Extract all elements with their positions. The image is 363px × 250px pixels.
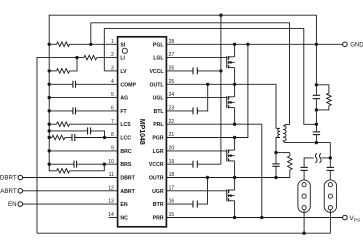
svg-text:BRC: BRC	[120, 149, 131, 155]
svg-text:7: 7	[111, 119, 114, 125]
svg-text:LI: LI	[120, 56, 125, 62]
wire PGL/GND row	[166, 43, 342, 45]
svg-text:UGR: UGR	[152, 189, 164, 195]
wire FT row right	[76, 110, 118, 112]
wire LCC bus lead	[49, 137, 52, 139]
node BRS junction	[103, 163, 106, 166]
transistor Q1 (low side L)	[227, 44, 235, 84]
wire balance row right	[322, 157, 331, 159]
svg-text:AG: AG	[120, 96, 128, 102]
terminal DBRT	[18, 175, 23, 180]
svg-text:PGL: PGL	[153, 42, 164, 48]
wire LGR row	[166, 150, 226, 152]
svg-text:VCCL: VCCL	[149, 69, 164, 75]
svg-text:12: 12	[108, 185, 114, 191]
wire LI row to pin	[97, 57, 118, 59]
node lamp1 return junction	[302, 232, 305, 235]
wire SI row bus lead	[49, 43, 56, 45]
resistor R4 (LCS)	[57, 122, 70, 127]
capacitor C1 (COMP)	[72, 81, 74, 88]
wire BTR row left	[166, 203, 193, 205]
svg-text:LV: LV	[120, 69, 127, 75]
wire gnd mid vertical	[220, 15, 222, 164]
wire BTL row right	[197, 84, 207, 111]
svg-text:14: 14	[108, 212, 114, 218]
wire C9 top lead	[275, 153, 277, 164]
svg-text:PGR: PGR	[152, 136, 163, 142]
node OUTR primary junction	[274, 176, 277, 179]
resistor R8 (sense)	[327, 93, 332, 105]
wire COMP row left	[49, 83, 73, 85]
wire R3 leads	[49, 70, 56, 72]
resistor R7 (bleed)	[288, 156, 293, 170]
transistor Q3 (low side R)	[227, 138, 235, 178]
capacitor C10 (sense)	[313, 94, 320, 96]
wire BRS shunt left hook	[49, 164, 56, 171]
wire VCCR row left	[166, 163, 193, 165]
wire UGR row	[166, 190, 226, 192]
svg-text:ABRT: ABRT	[120, 189, 135, 195]
capacitor C12 (ballast lamp2)	[327, 166, 334, 168]
wire R3 up link	[70, 58, 78, 71]
node PRL fet junction	[233, 123, 236, 126]
wire NC stub	[109, 217, 118, 219]
wire BRC row	[49, 150, 117, 152]
svg-text:1: 1	[111, 39, 114, 45]
svg-text:NC: NC	[120, 216, 128, 222]
capacitor C4 (BRS)	[73, 161, 75, 168]
svg-text:4: 4	[111, 79, 114, 85]
wire C10 leads	[315, 85, 317, 96]
svg-text:9: 9	[111, 146, 114, 152]
capacitor C5 (VCCL)	[192, 67, 194, 74]
svg-text:LCC: LCC	[120, 136, 131, 142]
terminal EN	[18, 202, 23, 207]
node LCC bus junction	[48, 136, 51, 139]
transistor Q4 (high side R)	[227, 178, 235, 218]
capacitor C13 (balance)	[315, 153, 317, 163]
wire SI feedback rail	[91, 23, 290, 125]
wire LCS row	[70, 123, 118, 125]
node LCC par bus junction	[48, 129, 51, 132]
resistor R2 (LI series)	[84, 55, 97, 60]
svg-text:LGL: LGL	[153, 56, 164, 62]
wire gnd rail mid	[315, 110, 317, 124]
svg-text:13: 13	[108, 199, 114, 205]
resistor R6 (BRS to GND)	[57, 169, 70, 174]
node balance junction	[329, 156, 332, 159]
transformer T1 primary	[276, 128, 280, 152]
node PRR PRL junction	[260, 216, 263, 219]
wire balance row left	[304, 158, 314, 168]
wire BRS row right	[77, 163, 118, 165]
node BRC bus junction	[48, 149, 51, 152]
resistor R5 (LCC)	[52, 135, 65, 140]
node LI junction	[75, 56, 78, 59]
wire VCCL row left	[166, 70, 193, 72]
wire ABRT row	[23, 190, 118, 192]
node PGL gnd-rail junction	[315, 43, 318, 46]
svg-text:PRR: PRR	[153, 216, 164, 222]
transistor Q2 (high side L)	[227, 84, 235, 124]
node secondary bottom junction	[315, 141, 318, 144]
node OUTL boot junction	[206, 83, 209, 86]
capacitor C8 (BTR)	[192, 201, 194, 208]
wire LCC par branch left	[49, 130, 87, 132]
capacitor C15 (LCC parallel)	[87, 127, 89, 134]
wire LCC row right	[75, 137, 118, 139]
pin 1 indicator circle	[122, 48, 127, 53]
wire SI row	[70, 43, 118, 45]
capacitor C14 (ballast lamp1)	[300, 166, 307, 168]
terminal VPS	[343, 215, 348, 220]
svg-text:2: 2	[111, 52, 114, 58]
svg-text:ABRT: ABRT	[0, 188, 17, 195]
wire ground top rail	[49, 15, 316, 44]
wire PRL row	[166, 124, 261, 217]
svg-text:8: 8	[111, 132, 114, 138]
wire FT row left	[49, 110, 73, 112]
svg-text:EN: EN	[8, 201, 17, 208]
node sense bottom junction	[315, 108, 318, 111]
node SI rail junction	[89, 43, 92, 46]
wire lamp2 cap lead	[329, 158, 331, 168]
wire VCCR row right	[197, 163, 221, 165]
wire LGL row	[166, 57, 226, 59]
svg-text:FT: FT	[120, 109, 127, 115]
svg-text:BRS: BRS	[120, 162, 131, 168]
wire EN row	[23, 203, 118, 205]
svg-text:OUTL: OUTL	[149, 82, 164, 88]
capacitor C3 (LCC)	[71, 134, 73, 141]
node sense top junction	[315, 83, 318, 86]
wire BRS row left	[49, 163, 74, 165]
svg-text:5: 5	[111, 92, 114, 98]
svg-text:3: 3	[111, 66, 114, 72]
wire COMP row right	[76, 83, 118, 85]
svg-text:GND: GND	[350, 43, 363, 49]
wire R8 branch	[316, 85, 329, 93]
svg-text:SI: SI	[120, 42, 125, 48]
wire BTL row left	[166, 110, 193, 112]
node LCS bus junction	[48, 123, 51, 126]
node PGL M1 junction	[233, 43, 236, 46]
wire LV feedback rail	[104, 29, 316, 125]
node FT bus junction	[48, 109, 51, 112]
svg-text:LGR: LGR	[153, 149, 164, 155]
svg-text:OUTR: OUTR	[149, 176, 164, 182]
svg-text:BTR: BTR	[153, 202, 164, 208]
svg-text:DBRT: DBRT	[120, 176, 135, 182]
wire lamp1 bottom lead	[303, 210, 305, 233]
svg-text:VCCR: VCCR	[149, 162, 164, 168]
node COMP bus junction	[48, 83, 51, 86]
wire LCC par branch right	[91, 131, 105, 138]
wire LI row	[37, 58, 84, 234]
capacitor C11 (divider)	[313, 131, 320, 133]
svg-text:MP1048: MP1048	[138, 119, 145, 145]
wire VCCL row right	[197, 70, 221, 72]
wire ground bus left	[48, 15, 50, 165]
node PGL PGR junction	[246, 43, 249, 46]
node primary RC top junction	[274, 151, 277, 154]
wire R7 leads	[289, 153, 291, 156]
wire LV pin stub	[104, 70, 117, 72]
wire lamp2 top lead	[329, 170, 331, 182]
node PGR fet junction	[233, 136, 236, 139]
node OUTL fet junction	[233, 83, 236, 86]
transformer T1 secondary	[283, 124, 286, 142]
wire lamp1 top lead	[303, 170, 305, 182]
wire secondary bottom row	[285, 143, 331, 158]
node LCC par junction	[103, 136, 106, 139]
svg-text:6: 6	[111, 106, 114, 112]
wire PGR row	[166, 44, 248, 137]
node gnd mid top junction	[219, 14, 222, 17]
wire R7 branch top	[276, 152, 290, 154]
node PRR fet junction	[233, 216, 236, 219]
svg-text:LCS: LCS	[120, 122, 131, 128]
wire LCC mid lead	[65, 137, 72, 139]
lamp LAMP1	[298, 180, 310, 213]
node SI bus junction	[48, 43, 51, 46]
wire C9 bottom lead	[275, 166, 277, 177]
svg-text:BTL: BTL	[154, 109, 165, 115]
op-amp U1 MP1048 body	[118, 37, 167, 227]
wire BTR row right	[197, 178, 207, 205]
wire lamp return bottom	[37, 232, 330, 234]
wire OUTL row	[166, 84, 276, 128]
capacitor C2 (FT)	[72, 107, 74, 114]
node OUTR fet junction	[233, 176, 236, 179]
terminal GND	[343, 42, 348, 47]
wire DBRT row	[23, 177, 118, 179]
wire LCS bus lead	[49, 123, 56, 125]
capacitor C7 (VCCR)	[192, 161, 194, 168]
svg-text:UGL: UGL	[153, 96, 165, 102]
node BRS bus junction	[48, 163, 51, 166]
wire R8 bottom lead	[316, 106, 329, 110]
lamp LAMP2	[324, 180, 336, 213]
capacitor C9 (DC block)	[272, 163, 279, 165]
svg-text:PRL: PRL	[153, 122, 164, 128]
svg-text:10: 10	[108, 159, 114, 165]
wire UGL row	[166, 97, 226, 99]
node R3 bus junction	[48, 69, 51, 72]
svg-text:11: 11	[109, 172, 114, 178]
wire BRS shunt right hook	[70, 164, 105, 171]
svg-text:EN: EN	[120, 202, 127, 208]
terminal ABRT	[18, 189, 23, 194]
wire gnd rail upper	[315, 44, 317, 85]
wire C11 leads	[315, 124, 317, 132]
resistor R1 (SI to GND)	[57, 42, 70, 47]
wire lamp2 bottom lead	[329, 210, 331, 233]
wire OUTR row	[166, 177, 276, 179]
resistor R3 (LI to GND)	[57, 69, 70, 74]
node OUTR boot junction	[206, 176, 209, 179]
node LV sense junction	[315, 123, 318, 126]
svg-text:COMP: COMP	[120, 82, 136, 88]
node VCCL junction	[219, 69, 222, 72]
wire PRR row	[166, 217, 342, 219]
capacitor C6 (BTL)	[192, 107, 194, 114]
node AG bus junction	[48, 96, 51, 99]
wire AG row	[49, 97, 117, 99]
svg-text:DBRT: DBRT	[0, 175, 17, 182]
